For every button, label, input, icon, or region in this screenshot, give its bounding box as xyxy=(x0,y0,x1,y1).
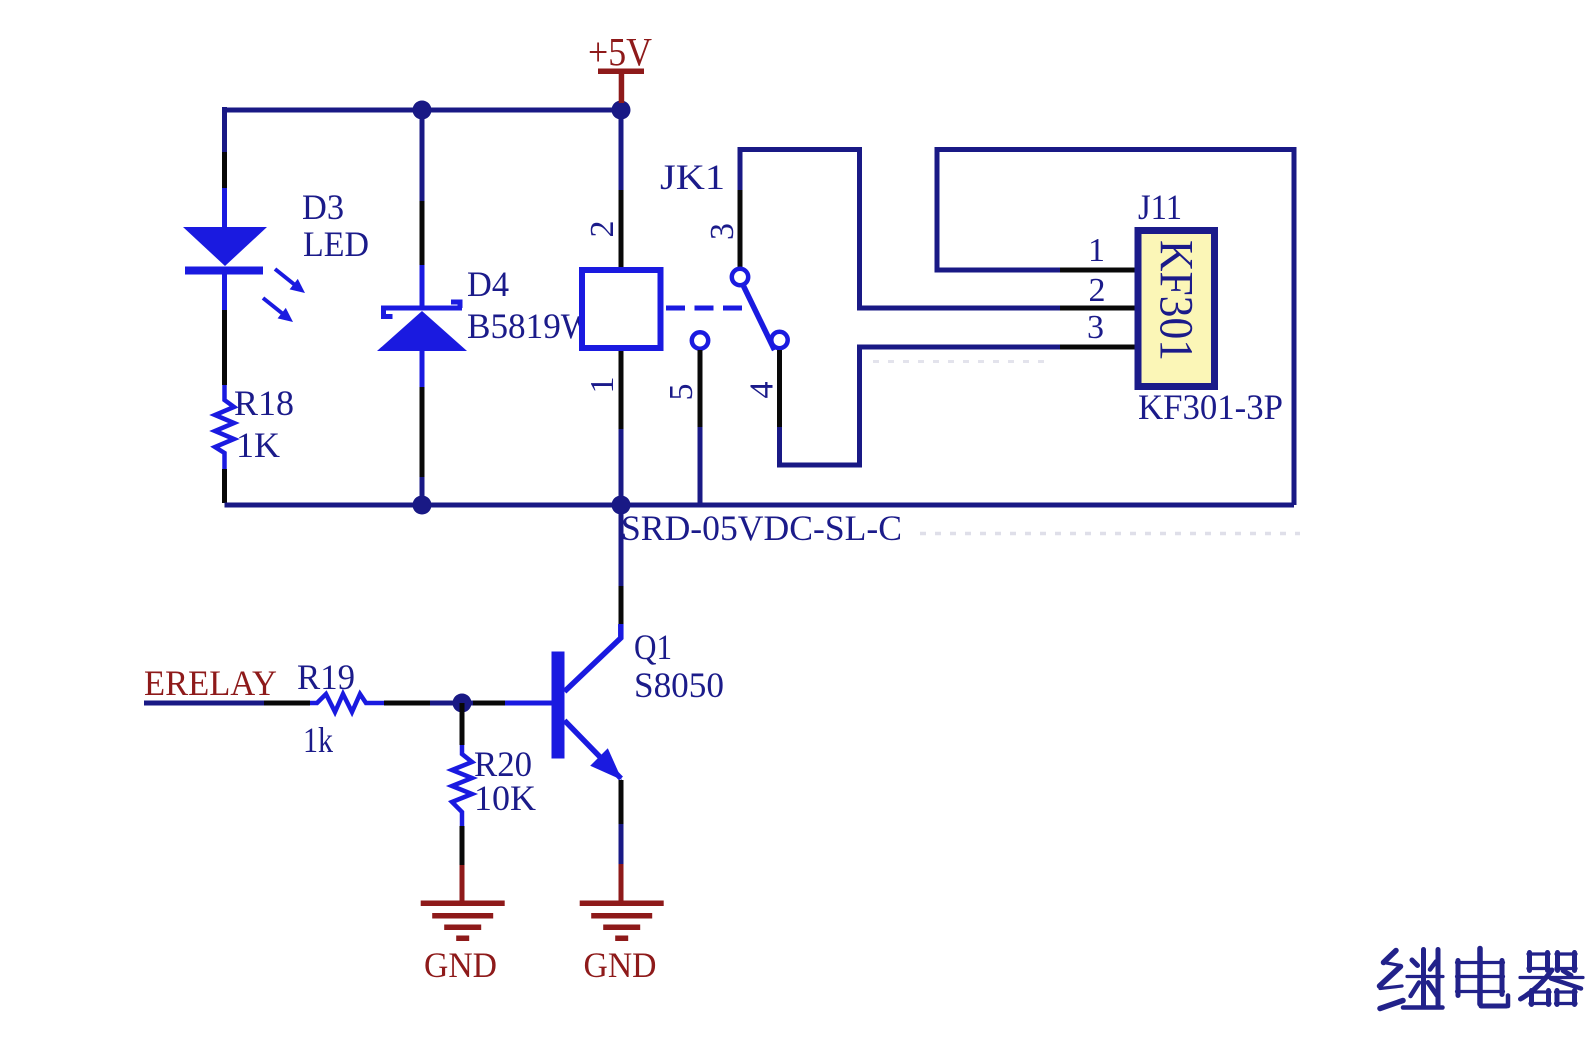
resistor R19 xyxy=(310,694,384,712)
pin Q1 collector xyxy=(619,586,624,624)
svg-text:GND: GND xyxy=(584,945,657,985)
svg-text:B5819W: B5819W xyxy=(467,306,594,346)
svg-text:Q1: Q1 xyxy=(634,627,672,667)
node junction top right xyxy=(612,101,631,120)
pin Q1 emitter xyxy=(619,780,624,824)
svg-text:4: 4 xyxy=(744,382,781,399)
pin R19 left xyxy=(264,701,310,706)
svg-text:1: 1 xyxy=(1088,232,1105,269)
relay switch dashed link xyxy=(666,306,744,311)
title text 电 xyxy=(1457,949,1509,1007)
svg-text:2: 2 xyxy=(584,221,621,238)
ground stub Q1 xyxy=(619,864,624,901)
connector J11 box xyxy=(1138,231,1215,387)
pin D3 cathode xyxy=(222,310,227,385)
pin J11-2 xyxy=(1060,306,1136,311)
node junction bottom right xyxy=(612,496,631,515)
node junction bottom mid xyxy=(413,496,432,515)
wire mid branch lower xyxy=(420,477,425,505)
svg-text:D3: D3 xyxy=(302,187,344,227)
ground stub R20 xyxy=(460,865,465,901)
LED D3 xyxy=(183,188,305,322)
svg-text:J11: J11 xyxy=(1138,187,1182,227)
pin D3 anode xyxy=(222,152,227,188)
wire top rail xyxy=(225,108,622,113)
svg-text:KF301-3P: KF301-3P xyxy=(1138,387,1283,427)
pin JK1-4 xyxy=(777,350,782,427)
ground GND1 xyxy=(421,901,505,986)
wire relay coil top xyxy=(619,107,624,190)
wire coil to rail xyxy=(619,429,624,505)
svg-text:R19: R19 xyxy=(297,657,355,697)
resistor R20 xyxy=(452,745,472,826)
svg-text:1k: 1k xyxy=(303,720,333,760)
switch contact circle 4 xyxy=(771,332,787,348)
wire mid branch upper xyxy=(420,107,425,201)
svg-text:ERELAY: ERELAY xyxy=(144,663,277,703)
svg-text:2: 2 xyxy=(1089,272,1106,309)
title text 器 xyxy=(1520,953,1583,1005)
svg-text:1K: 1K xyxy=(236,425,280,465)
watermark dashes row 2 xyxy=(920,532,1300,536)
wire route C pin4 to J11 pin3 xyxy=(780,347,1061,465)
wire route A pin3 to J11 pin2 xyxy=(740,150,1060,309)
wire route B J11 pin1 to bottom rail xyxy=(937,150,1294,506)
ground GND2 xyxy=(580,901,664,986)
power +5V xyxy=(588,30,652,104)
wire ERELAY lead xyxy=(144,701,264,706)
svg-text:+5V: +5V xyxy=(588,30,652,75)
switch contact circle 3 xyxy=(732,269,748,285)
node junction base xyxy=(453,694,472,713)
pin J11-1 xyxy=(1060,268,1136,273)
pin R20 bottom xyxy=(460,826,465,865)
pin JK1-1 xyxy=(619,351,624,429)
watermark dashes row 1 xyxy=(873,360,1053,363)
wire base net xyxy=(430,701,473,706)
svg-text:1: 1 xyxy=(584,377,621,394)
wire collector net xyxy=(619,506,624,586)
resistor R18 xyxy=(215,385,234,469)
svg-text:S8050: S8050 xyxy=(634,665,724,705)
pin JK1-5 xyxy=(698,350,703,427)
wire emitter net xyxy=(619,824,624,864)
pin JK1-2 xyxy=(619,190,624,267)
pin D4 cathode xyxy=(420,201,425,265)
switch blade xyxy=(744,286,775,350)
svg-text:GND: GND xyxy=(424,945,497,985)
svg-text:R18: R18 xyxy=(234,383,294,423)
wire left branch upper xyxy=(222,107,227,152)
svg-text:D4: D4 xyxy=(467,264,509,304)
svg-text:JK1: JK1 xyxy=(660,157,725,197)
pin R18 bottom xyxy=(222,469,227,503)
wire switch pin3 top xyxy=(738,147,743,190)
svg-text:10K: 10K xyxy=(474,778,536,818)
svg-text:3: 3 xyxy=(1087,309,1104,346)
wire pin5 to rail xyxy=(698,427,703,503)
wire bottom rail xyxy=(225,503,1295,508)
diode D4 schottky xyxy=(377,265,467,387)
svg-text:5: 5 xyxy=(663,384,700,401)
pin R19 right xyxy=(384,701,430,706)
relay coil JK1 box xyxy=(582,270,661,348)
title text 继 xyxy=(1380,950,1444,1009)
svg-text:LED: LED xyxy=(303,224,369,264)
node junction top mid xyxy=(413,101,432,120)
pin JK1-3 xyxy=(738,190,743,268)
svg-text:SRD-05VDC-SL-C: SRD-05VDC-SL-C xyxy=(621,508,902,548)
svg-text:3: 3 xyxy=(704,223,741,240)
pin J11-3 xyxy=(1060,345,1136,350)
switch contact circle 5 xyxy=(692,332,708,348)
pin Q1 base xyxy=(473,701,505,706)
pin D4 anode xyxy=(420,387,425,477)
svg-text:KF301: KF301 xyxy=(1150,240,1203,361)
transistor Q1 xyxy=(505,624,622,780)
pin R20 top xyxy=(460,703,465,745)
